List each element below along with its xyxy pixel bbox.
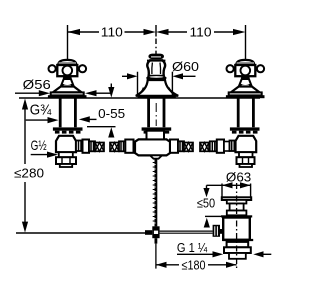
dimension 110 left: line [68,31,144,33]
diameter 56 leader line [15,92,44,94]
handle dome gray band [59,62,76,64]
svg-text:0-55: 0-55 [98,106,125,121]
dimension 0-55 bottom reference line [87,126,116,128]
waste threaded section [227,242,249,247]
center tee barrel [135,139,170,155]
diameter 63 arrowheads [222,182,251,188]
diameter 56 left arrowhead [39,90,50,96]
spout body [136,54,178,99]
right valve port rings [230,141,236,152]
left valve port rings [76,141,83,152]
spout body column [147,60,165,76]
handle hub [57,65,77,76]
svg-text:≤50: ≤50 [197,196,215,211]
left valve outlet stub [60,164,72,167]
spout flare shading left [137,88,144,96]
handle right arm [77,67,81,72]
spout brim [147,60,165,62]
dimension 180 arrowheads [156,262,237,268]
rod extension line [155,244,157,269]
spout flare shading right [169,88,176,96]
center tee neck [147,131,165,140]
dimension 110 right: line [169,31,234,33]
dimension 50 bottom arrow [204,218,210,228]
waste body [223,218,250,240]
svg-text:Ø63: Ø63 [226,170,251,185]
diameter 56 right arrow [85,90,97,96]
left hose union nut [83,140,90,153]
diameter 63 extension lines [222,184,251,198]
dimension 280 top arrow [22,99,28,110]
handle neck dark taper [62,76,72,79]
spout tip cap [148,54,164,60]
handle dome cap [58,60,76,65]
handle skirt dark band [61,84,74,87]
diameter 60 left arrow [122,75,128,77]
G 1 1/4 leader arrow [177,253,214,255]
dimension 110: extension tick center [155,25,157,37]
left valve shank [60,98,75,127]
base reference line [16,232,145,234]
waste spool waist [230,204,244,211]
tee left union nut [125,140,133,153]
dimension 0-55 bottom arrow [108,127,114,137]
left hose ferrule [89,141,95,151]
handle left arm [53,67,57,72]
svg-text:110: 110 [190,25,212,40]
waste bottom pipe [229,253,246,259]
dimension 110 left: arrowheads [68,29,157,35]
left hose braided section B [110,143,119,152]
right valve hex nut [237,157,255,164]
svg-text:≤280: ≤280 [14,166,44,181]
right valve body [236,136,257,152]
dimension 280 lower line and arrow [24,182,26,223]
right valve shank [238,98,253,127]
under-deck flange left [53,127,83,133]
right hose braided section A [184,143,193,152]
center tee bottom skirt [150,155,162,158]
handle base lower plate [48,95,87,98]
under-deck flange center [142,127,172,133]
under-deck flange right [230,127,260,133]
waste centerline [236,183,238,269]
waste lever rod [160,231,213,233]
left hose ferrule inner [119,141,125,151]
right valve outlet stub [240,164,253,167]
G 3/4 right arrow [79,116,90,122]
waste spool upper [227,200,247,204]
left valve body [56,136,76,152]
diameter 60 extension lines [138,72,173,96]
spout centerline upper dash-dot [155,39,157,55]
rod lower end [155,238,158,243]
svg-text:G 1 ¼: G 1 ¼ [177,240,207,255]
waste ledge left tick [205,215,221,217]
handle skirt highlight [64,84,72,86]
right valve spacer [224,142,230,152]
right hose ferrule [210,141,217,151]
svg-text:110: 110 [101,25,123,40]
G 1 1/4 right arrow [253,251,263,257]
handle base upper plate [51,92,84,95]
spout tip cap highlight [151,56,161,58]
svg-text:G½: G½ [31,137,47,153]
dimension 180 line [156,264,237,266]
waste body bottom step [222,239,253,241]
tee right union nut [170,140,178,153]
spout shank [149,98,164,127]
waste ledge plate [221,215,252,217]
waste spool lower [227,211,247,216]
G 1/2 leader arrow [31,154,48,156]
right valve handle [226,60,265,98]
spout base plate [138,96,176,99]
spout body shading lines [152,63,161,75]
diameter 60 right arrow [172,73,183,79]
svg-text:Ø60: Ø60 [172,59,199,74]
spout dark ring [146,75,166,81]
dimension 110 left: extension line left valve [67,25,69,61]
spout shank centerline [155,103,157,126]
knob stem [220,229,223,234]
spout trumpet flare [136,80,178,96]
svg-text:G¾: G¾ [30,102,52,119]
pop-up waste pull rod [155,159,158,227]
right valve elbow leg [239,152,253,157]
left valve handle group [48,60,87,98]
right hose braided section B [200,143,209,152]
handle skirt [61,79,74,87]
left hose braided section A [95,143,104,152]
waste lower collar [224,247,251,253]
G 3/4 leader arrow [26,119,49,121]
right hose ferrule inner [178,141,184,151]
deck line [19,97,260,99]
svg-text:≤180: ≤180 [182,257,206,272]
dimension 50 top arrow [206,185,208,189]
dimension 110 right: extension line right valve [245,25,247,61]
pull rod knurling ticks [153,163,155,222]
dimension 110 right: arrowheads [156,29,246,35]
handle hub front circle [63,66,73,76]
handle left ball [49,65,56,72]
handle right ball [79,65,86,72]
rod clamp block [152,226,159,238]
left valve elbow leg [59,152,73,157]
diameter 63 dimension line [207,184,251,186]
left valve hex nut [56,157,76,164]
dimension 0-55 top arrow [110,84,112,89]
spout ring highlight [149,76,163,78]
lever ball joint knob [213,225,220,237]
right hose union nut [217,140,224,153]
lever fitting left of rod [145,230,152,235]
handle bell [53,87,82,93]
svg-text:Ø56: Ø56 [23,77,51,92]
waste flange [222,197,251,200]
